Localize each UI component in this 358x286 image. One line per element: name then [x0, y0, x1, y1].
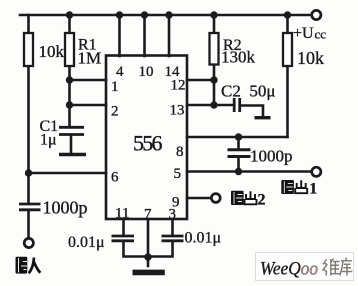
- wire pin 6: [29, 172, 107, 175]
- wire pin 10: [143, 15, 146, 56]
- svg-text:6: 6: [111, 170, 119, 186]
- label output2 char shu: [231, 191, 244, 205]
- node pin7 ground: [144, 253, 151, 260]
- resistor 10k right body: [283, 33, 292, 66]
- svg-text:WeeQoo: WeeQoo: [260, 259, 318, 280]
- label output2 char chu: [244, 191, 258, 204]
- wire R2 top lead: [213, 15, 216, 33]
- svg-text:130k: 130k: [221, 48, 256, 67]
- svg-text:3: 3: [169, 207, 177, 223]
- node pin1: [66, 76, 73, 83]
- node pin12: [210, 76, 217, 83]
- wire pin 1: [70, 79, 107, 82]
- label output1 char shu: [281, 180, 294, 194]
- wire 0.01u right bottom lead: [148, 242, 173, 257]
- wire pin 13 to C2: [187, 104, 233, 107]
- capacitor C1 plates: [59, 127, 84, 134]
- capacitor C2 plates: [234, 98, 240, 112]
- wire pin 12: [187, 79, 214, 82]
- svg-text:0.01μ: 0.01μ: [185, 230, 222, 247]
- wire 0.01u left bottom lead: [124, 242, 149, 257]
- watermark char ku: [340, 258, 353, 276]
- wire pin 5 to output1 terminal: [187, 170, 311, 173]
- node pin5 cap: [235, 168, 242, 175]
- node R1 top: [66, 11, 73, 18]
- svg-text:12: 12: [171, 78, 186, 94]
- pin number labels: [111, 64, 186, 223]
- node pin10 top: [141, 11, 148, 18]
- wire 1000p right top stem: [237, 137, 240, 149]
- wire pin 4: [118, 15, 121, 56]
- wire R1 top lead: [68, 15, 71, 33]
- capacitor 0.01u right plates: [162, 236, 184, 241]
- label shuru (input) char ru: [29, 258, 41, 274]
- svg-text:11: 11: [115, 206, 129, 222]
- watermark box: [256, 253, 354, 281]
- ground C2 bar: [255, 116, 271, 119]
- wire left branch down from rail: [27, 15, 30, 33]
- terminal +Ucc: [312, 10, 321, 19]
- svg-text:2: 2: [111, 104, 119, 120]
- ground C1 bar: [59, 153, 86, 156]
- svg-text:556: 556: [133, 131, 163, 156]
- IC op-timer U1 556 box: [106, 56, 187, 220]
- terminal input: [24, 238, 33, 247]
- wire 10k right bottom lead down to pin8 wire: [286, 66, 289, 137]
- wire pin 9 to output2 terminal: [187, 197, 211, 200]
- svg-text:10: 10: [139, 64, 154, 80]
- node pin14 top: [165, 11, 172, 18]
- svg-text:4: 4: [116, 64, 124, 80]
- wire left branch cap to input terminal: [27, 211, 30, 238]
- resistor R2 body: [210, 33, 219, 65]
- label shuru (input) char shu: [16, 257, 28, 274]
- svg-text:10k: 10k: [39, 42, 65, 61]
- wire R2 bottom lead to pin13 node: [213, 65, 216, 106]
- svg-text:13: 13: [170, 103, 185, 119]
- wire R1 bottom lead to C1: [68, 66, 71, 126]
- svg-text:1: 1: [111, 79, 119, 95]
- node pin13: [210, 101, 217, 108]
- terminal output2: [211, 194, 220, 203]
- node pin6: [25, 169, 32, 176]
- svg-text:0.01μ: 0.01μ: [68, 234, 105, 251]
- svg-text:cc: cc: [315, 27, 327, 42]
- ground main bar: [133, 270, 165, 276]
- node pin2: [66, 101, 73, 108]
- wire pin 2: [70, 104, 107, 107]
- resistor R1 body: [65, 33, 74, 66]
- wire pin 11 down: [122, 219, 125, 235]
- wire pin 8: [187, 136, 288, 139]
- watermark char wei: [323, 259, 340, 276]
- wire C1 stem to ground: [70, 136, 73, 153]
- wire top supply rail: [20, 14, 311, 17]
- label output1 char chu: [294, 180, 308, 193]
- wire 1000p right bottom stem: [237, 158, 240, 171]
- svg-text:2: 2: [258, 192, 266, 209]
- capacitor 0.01u left plates: [112, 236, 135, 241]
- node pin8 cap: [235, 133, 242, 140]
- resistor 10k left body: [24, 33, 33, 66]
- svg-text:1: 1: [309, 181, 317, 198]
- wire C2 right lead: [241, 106, 263, 117]
- svg-text:C2 50μ: C2 50μ: [221, 82, 275, 101]
- wire pin 3 down: [171, 219, 174, 235]
- svg-text:1000p: 1000p: [43, 198, 88, 218]
- svg-text:1μ: 1μ: [40, 132, 57, 149]
- wire 10k right top lead: [286, 15, 289, 33]
- capacitor 1000p left plates: [19, 204, 41, 210]
- terminal output1: [312, 167, 321, 176]
- svg-text:7: 7: [144, 207, 152, 223]
- svg-text:10k: 10k: [297, 48, 324, 68]
- capacitor 1000p right plates: [228, 150, 251, 157]
- svg-text:1M: 1M: [78, 49, 102, 68]
- svg-text:8: 8: [176, 144, 184, 160]
- wire pin 7 down to ground: [147, 219, 150, 266]
- svg-text:5: 5: [174, 166, 182, 182]
- node R2 top: [210, 11, 217, 18]
- svg-text:+U: +U: [293, 25, 314, 42]
- node pin4 top: [116, 11, 123, 18]
- svg-text:1000p: 1000p: [250, 147, 293, 166]
- node 10k right top: [284, 11, 291, 18]
- wire left branch resistor to pin6 node: [27, 66, 30, 203]
- wire pin 14: [168, 15, 171, 56]
